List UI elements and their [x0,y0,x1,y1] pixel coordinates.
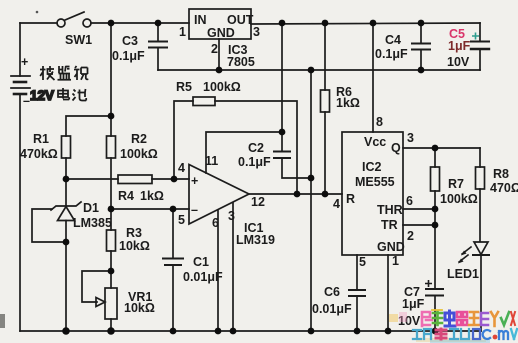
svg-text:IN: IN [194,13,207,27]
svg-text:7805: 7805 [227,55,255,69]
svg-text:C6: C6 [324,285,340,299]
char chi [73,89,87,101]
svg-text:10V: 10V [447,55,470,69]
svg-text:R2: R2 [131,132,147,146]
svg-text:5: 5 [359,255,366,269]
scan smudge bottom-left [0,314,5,328]
capacitor C6 [349,255,365,331]
svg-text:5: 5 [178,213,185,227]
svg-text:0.01μF: 0.01μF [312,302,352,316]
resistor R4 [118,175,152,184]
svg-text:D1: D1 [83,201,99,215]
watermark [389,310,517,343]
node C2 top / pin11 supply [281,23,283,151]
wire top rail left [20,22,57,24]
svg-text:8: 8 [376,115,383,129]
svg-text:SW1: SW1 [65,33,92,47]
electrolytic plus C5 [472,33,479,40]
svg-text:+: + [21,55,28,69]
svg-text:–: – [23,94,30,108]
chinese text 被监视 (monitored) drawn strokes [30,66,88,103]
watermark row2 glyphs [413,329,517,339]
svg-text:R8: R8 [493,167,509,181]
svg-text:470Ω: 470Ω [490,181,518,195]
wire op-amp pin3 [232,203,234,331]
wire Vcc pin8 [372,23,374,132]
wire top rail right [251,23,480,24]
svg-text:2: 2 [211,42,218,56]
svg-text:3: 3 [253,25,260,39]
svg-text:R5: R5 [176,80,192,94]
svg-text:R3: R3 [126,226,142,240]
svg-text:6: 6 [406,194,413,208]
svg-text:C1: C1 [193,255,209,269]
zener D1 LM385 [32,179,81,331]
svg-text:R: R [346,192,355,206]
wire op-amp pin6 [217,210,219,331]
LED1 [458,242,489,331]
svg-text:Q: Q [391,141,401,155]
svg-text:0.1μF: 0.1μF [238,155,271,169]
timer IC2 ME555 box [342,132,403,255]
capacitor C7 electrolytic [426,225,443,331]
svg-text:C3: C3 [122,34,138,48]
svg-text:THR: THR [377,203,403,217]
svg-text:LM319: LM319 [236,233,275,247]
svg-text:10kΩ: 10kΩ [124,301,155,315]
wire mid ground rail [158,69,480,71]
capacitor C4 [412,23,430,70]
svg-text:100kΩ: 100kΩ [440,192,478,206]
wire noninverting input [66,178,118,180]
svg-text:1kΩ: 1kΩ [140,189,164,203]
svg-text:12: 12 [251,195,265,209]
scan dot top-left [36,11,39,14]
battery 12V [11,23,30,331]
svg-text:6: 6 [212,216,219,230]
svg-text:10kΩ: 10kΩ [119,239,150,253]
svg-text:C2: C2 [248,141,264,155]
watermark speckles [389,312,490,343]
svg-text:4: 4 [333,197,340,211]
wire inverting input [111,208,189,210]
capacitor C2 [274,152,311,179]
capacitor C1 [163,209,183,331]
watermark row1 glyphs [422,310,515,326]
wire TR pin2 [403,224,435,226]
capacitor C5 electrolytic [471,23,489,70]
resistor R6 [321,23,330,194]
svg-text:100kΩ: 100kΩ [120,147,158,161]
wire THR pin6 [403,208,435,210]
svg-text:4: 4 [178,161,185,175]
resistor R1 [62,116,112,179]
svg-text:IC2: IC2 [362,160,382,174]
svg-text:0.1μF: 0.1μF [112,49,145,63]
electrolytic plus C7 [425,280,432,287]
svg-text:GND: GND [377,240,405,254]
op-amp IC1 LM319 triangle [189,165,249,225]
wire ground drop [310,70,312,331]
capacitor C3 [149,23,167,70]
svg-text:Vcc: Vcc [364,135,386,149]
regulator IC3 7805 box [189,9,251,39]
svg-text:1: 1 [392,254,399,268]
svg-text:1: 1 [179,25,186,39]
svg-text:100kΩ: 100kΩ [203,80,241,94]
wire bottom rail [20,330,481,332]
svg-text:LM385: LM385 [73,216,112,230]
svg-text:R1: R1 [33,132,49,146]
wire op-amp output pin12 [249,193,342,195]
svg-text:R4: R4 [118,189,134,203]
svg-text:C4: C4 [385,33,401,47]
svg-text:1kΩ: 1kΩ [336,96,360,110]
wire Q output pin3 [403,147,480,149]
svg-text:TR: TR [381,218,398,232]
svg-text:ME555: ME555 [355,175,395,189]
svg-text:1μF: 1μF [402,297,425,311]
svg-text:2: 2 [407,229,414,243]
svg-text:1μF: 1μF [448,39,471,53]
svg-text:12V: 12V [30,88,54,103]
wire pin11 [206,132,282,173]
svg-text:GND: GND [207,26,235,40]
svg-text:–: – [191,203,198,217]
svg-text:R7: R7 [448,177,464,191]
char bei [40,66,55,80]
svg-text:470kΩ: 470kΩ [20,147,58,161]
resistor R7 [431,148,440,225]
svg-text:11: 11 [205,154,218,168]
char jian [58,66,72,80]
svg-text:OUT: OUT [227,13,254,27]
svg-text:0.01μF: 0.01μF [183,270,223,284]
resistor R2 [107,23,116,209]
potentiometer VR1 [82,271,117,331]
resistor R5 [174,97,297,194]
svg-text:LED1: LED1 [447,267,479,281]
svg-text:0.1μF: 0.1μF [375,47,408,61]
svg-text:+: + [191,174,198,188]
svg-text:3: 3 [228,209,235,223]
switch SW1 [57,12,91,27]
char shi [74,66,88,80]
resistor R3 [107,209,116,271]
char dian [58,88,69,100]
wire 7805 gnd pin2 [218,39,220,70]
svg-text:3: 3 [407,131,414,145]
resistor R8 [476,148,485,241]
wire top rail mid [91,22,189,24]
wire 555 gnd pin1 [387,255,389,331]
